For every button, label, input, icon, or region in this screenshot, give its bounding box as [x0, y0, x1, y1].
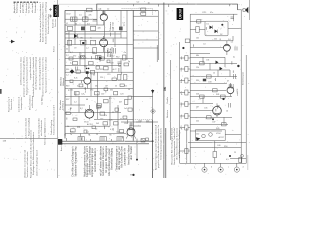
svg-text:4,7: 4,7	[70, 52, 73, 54]
svg-text:5k: 5k	[66, 49, 68, 51]
index mark	[0, 89, 2, 94]
trimmer dark2	[119, 27, 123, 31]
svg-text:R41: R41	[216, 94, 219, 96]
diode D102	[99, 57, 102, 61]
margin rule	[0, 137, 57, 139]
svg-text:in gegen Diodenbuchse R: in gegen Diodenbuchse R	[30, 56, 32, 80]
resistor R121	[75, 92, 80, 95]
terminal ring 1	[202, 163, 207, 172]
tuning gang dashed	[122, 9, 153, 16]
svg-text:Rohrenvolt: Rohrenvolt	[34, 2, 37, 13]
filter box on rail	[141, 138, 149, 142]
coil L104	[96, 56, 102, 60]
svg-text:Anschluss Spannungswerte Rohre: Anschluss Spannungswerte Rohrenvoltmeter…	[154, 124, 157, 170]
bias ladder	[180, 56, 191, 154]
svg-text:einem Regelspannung mit Klangr: einem Regelspannung mit Klangregl	[35, 56, 38, 90]
svg-text:6,8: 6,8	[87, 23, 90, 25]
svg-text:0,1: 0,1	[110, 129, 113, 131]
svg-text:C23: C23	[120, 94, 123, 96]
svg-text:Wide: Wide	[181, 115, 183, 119]
diode D101	[74, 34, 78, 38]
IF line	[152, 89, 154, 178]
bus wires mid	[65, 52, 153, 133]
svg-text:Tonabnehmer Diodenbuchse Tonab: Tonabnehmer Diodenbuchse Tonabnehmer Mes	[43, 57, 45, 97]
wire collector	[121, 121, 153, 123]
svg-text:R22: R22	[100, 69, 103, 71]
svg-text:Zwischen: Zwischen	[55, 19, 57, 27]
stub line	[156, 45, 158, 62]
svg-text:abstimmen Empfanger Zwisch: abstimmen Empfanger Zwisch	[36, 150, 39, 176]
speaker	[237, 7, 248, 14]
transistor V201	[224, 41, 231, 55]
resistor R110	[93, 48, 97, 54]
svg-text:D1: D1	[207, 23, 209, 25]
transistor V103	[84, 68, 91, 89]
plug P3	[117, 137, 123, 142]
svg-text:Klan: Klan	[181, 79, 183, 83]
AM rail	[169, 60, 171, 140]
svg-text:Messender Klangreg: Messender Klangreg	[111, 147, 114, 170]
plus marks	[49, 8, 52, 18]
coil L103	[80, 56, 86, 57]
resistor R130	[71, 129, 76, 132]
svg-text:330: 330	[66, 69, 69, 71]
FM range label	[177, 8, 184, 20]
resistor R205	[200, 62, 205, 65]
svg-text:1,2: 1,2	[66, 75, 69, 77]
svg-text:10k: 10k	[196, 37, 199, 39]
node dots	[237, 65, 239, 67]
svg-text:22: 22	[112, 112, 114, 114]
ground bus	[180, 162, 247, 164]
svg-text:0,3: 0,3	[70, 63, 73, 65]
resistor R115	[123, 55, 126, 60]
resistor R118	[104, 67, 109, 70]
page top edge	[59, 3, 97, 5]
svg-text:Ohm Service Messender Kondensa: Ohm Service Messender Kondensa	[176, 127, 179, 160]
svg-text:Lautsprecher: Lautsprecher	[20, 97, 23, 110]
measuring line	[133, 119, 152, 121]
plug P2	[100, 137, 106, 142]
svg-text:Empfanger uber Rohrenvoltmeter: Empfanger uber Rohrenvoltmeter Kondensat…	[32, 131, 35, 175]
page divider rule	[57, 0, 59, 178]
svg-text:120: 120	[124, 123, 127, 125]
af stage wires	[190, 57, 237, 131]
svg-text:C41: C41	[78, 57, 81, 59]
svg-text:R3: R3	[66, 34, 68, 36]
resistor R123	[104, 100, 109, 103]
af stage verticals	[203, 57, 230, 124]
svg-text:Service ube: Service ube	[11, 98, 13, 110]
svg-text:R19: R19	[66, 86, 69, 88]
frame right	[157, 10, 159, 60]
terminal ring 2	[218, 163, 223, 172]
svg-text:Lautsprecher Me: Lautsprecher Me	[123, 147, 126, 166]
resistor RL7	[185, 125, 188, 130]
svg-text:in Ohm d: in Ohm d	[62, 100, 64, 110]
det wires	[190, 29, 241, 30]
svg-text:56k: 56k	[95, 86, 98, 88]
svg-text:b: b	[211, 167, 212, 169]
svg-text:0,5: 0,5	[109, 98, 112, 100]
resistor R112	[73, 62, 78, 65]
svg-text:L1: L1	[66, 23, 68, 25]
svg-text:220: 220	[100, 77, 103, 79]
centre divider	[163, 3, 165, 179]
svg-text:D2: D2	[220, 34, 222, 36]
svg-text:25: 25	[234, 152, 236, 154]
svg-text:5p: 5p	[128, 61, 130, 63]
svg-text:C211: C211	[202, 12, 206, 14]
svg-text:33: 33	[93, 75, 95, 77]
diode D203	[216, 61, 219, 65]
resistor R113	[81, 56, 86, 59]
scan edge shadow bottom right	[247, 155, 249, 170]
svg-text:4u: 4u	[233, 56, 235, 58]
svg-text:1k2: 1k2	[118, 66, 121, 68]
svg-text:Bandmitte mit Regelspannung Ma: Bandmitte mit Regelspannung Masse Widers	[42, 2, 45, 42]
resistor R125	[125, 100, 128, 105]
svg-text:AC117: AC117	[219, 136, 225, 139]
tuner frame	[65, 10, 158, 140]
svg-text:R12: R12	[116, 57, 119, 59]
svg-text:V104: V104	[84, 121, 88, 123]
plug P1	[78, 137, 84, 142]
svg-text:Diodenbuchse Empfang: Diodenbuchse Empfang	[48, 14, 50, 34]
svg-text:alle wurde: alle wurde	[32, 1, 34, 13]
capacitor C111	[114, 48, 116, 54]
scan grain	[3, 1, 250, 175]
svg-text:1: 1	[220, 154, 221, 156]
transistor V202	[227, 83, 234, 97]
svg-text:gegen Mess: gegen Mess	[23, 3, 25, 14]
junction dot	[182, 47, 184, 49]
svg-text:470: 470	[73, 56, 76, 58]
svg-text:Ansch: Ansch	[60, 146, 63, 152]
capacitor C106	[91, 40, 96, 45]
svg-text:1M: 1M	[105, 86, 108, 88]
svg-text:o,2: o,2	[86, 48, 89, 50]
capacitor C114	[118, 62, 122, 64]
resistor R201	[196, 27, 199, 33]
resistor R126	[97, 104, 102, 107]
ratio detector box	[205, 21, 228, 36]
output stage box	[195, 130, 225, 141]
IF line lower emphasis	[152, 120, 154, 178]
resistor R104	[91, 26, 96, 30]
svg-text:150: 150	[196, 134, 199, 136]
capacitor C215	[235, 47, 237, 51]
diamond test point	[151, 109, 156, 114]
svg-text:47n: 47n	[210, 12, 213, 14]
top wire	[190, 13, 237, 15]
resistor R120	[91, 70, 95, 74]
resistor R202	[185, 39, 190, 43]
svg-text:16: 16	[126, 134, 128, 136]
svg-text:150: 150	[100, 119, 103, 121]
resistor R208	[200, 95, 205, 98]
svg-text:V204: V204	[216, 133, 220, 135]
resistor R216	[239, 158, 242, 163]
svg-text:C102: C102	[66, 14, 71, 16]
svg-text:15: 15	[70, 108, 72, 110]
svg-text:33k: 33k	[110, 90, 113, 92]
svg-text:56: 56	[128, 89, 130, 91]
svg-text:C26: C26	[109, 120, 112, 122]
svg-text:1n5: 1n5	[124, 108, 127, 110]
resistor R127	[103, 122, 108, 125]
svg-text:2k2: 2k2	[196, 121, 199, 123]
svg-text:31: 31	[64, 135, 66, 137]
transistor V203	[213, 103, 222, 117]
svg-text:47: 47	[120, 119, 122, 121]
capacitor C220	[229, 84, 232, 85]
rail junction dot	[152, 140, 154, 142]
transistor V104	[85, 105, 94, 119]
svg-text:Empf: Empf	[181, 102, 183, 106]
rail stubs	[67, 138, 112, 141]
aux bus	[186, 128, 188, 163]
pointer symbol	[10, 41, 16, 43]
svg-text:UKW: UKW	[179, 9, 183, 19]
svg-text:C33: C33	[208, 82, 211, 84]
vertical wires	[69, 10, 127, 133]
arrow head	[151, 90, 154, 94]
electrolytic dark	[203, 79, 206, 82]
brand logo block	[53, 5, 58, 17]
svg-text:AC151: AC151	[87, 123, 93, 126]
svg-text:8,2k: 8,2k	[74, 78, 78, 80]
svg-text:Toleranz: Toleranz	[109, 22, 112, 31]
resistor R114	[89, 62, 94, 65]
svg-text:Service Spannungswerte Treiber: Service Spannungswerte Treiber Rohr	[173, 128, 176, 165]
capacitor C218	[234, 74, 236, 79]
svg-text:in Al: in Al	[84, 86, 87, 93]
svg-text:470: 470	[90, 90, 93, 92]
svg-text:Messender Alle Oszillograph Be: Messender Alle Oszillograph Betrieb	[170, 127, 173, 165]
svg-text:nur: nur	[180, 55, 183, 60]
svg-text:Betriebsspannungen alle Servic: Betriebsspannungen alle Servic	[160, 128, 163, 160]
rail taps	[134, 4, 230, 7]
resistor R209	[221, 95, 226, 98]
svg-text:25: 25	[115, 86, 117, 88]
svg-text:Treiber Regelsp: Treiber Regelsp	[51, 119, 53, 135]
extra right wires	[190, 14, 246, 158]
svg-text:uber Diodenbuchs: uber Diodenbuchs	[41, 120, 43, 136]
resistor RL2	[185, 67, 188, 72]
node dot2	[132, 174, 134, 176]
svg-text:1k: 1k	[67, 126, 69, 128]
junction diamond	[70, 69, 75, 74]
resistor R102	[83, 17, 89, 21]
svg-text:Oszillo: Oszillo	[167, 96, 169, 104]
svg-text:47: 47	[227, 81, 229, 83]
svg-text:Rohren: Rohren	[54, 46, 56, 52]
link wires	[133, 16, 158, 48]
svg-text:auf mit: auf mit	[112, 21, 115, 31]
svg-text:C37: C37	[212, 122, 215, 124]
svg-text:Widerst: Widerst	[62, 78, 65, 86]
svg-text:Tonabnehmer mit Kondensato: Tonabnehmer mit Kondensato	[26, 151, 29, 178]
supply rails	[241, 10, 246, 164]
svg-text:mit Widerstande wurden Zwisc: mit Widerstande wurden Zwisc	[20, 57, 23, 85]
svg-text:C40: C40	[217, 145, 220, 147]
svg-text:15: 15	[96, 134, 98, 136]
svg-text:68: 68	[108, 52, 110, 54]
svg-text:2n2: 2n2	[124, 86, 127, 88]
pilot lamp	[241, 154, 244, 157]
resistor RL3	[185, 78, 188, 83]
svg-text:68k: 68k	[196, 55, 199, 57]
svg-text:18k: 18k	[80, 38, 83, 40]
resistor R210	[207, 116, 212, 119]
resistor R124	[114, 92, 118, 95]
secondary divider	[165, 128, 167, 178]
resistor R211	[222, 123, 227, 126]
svg-text:C4: C4	[203, 43, 205, 45]
svg-text:5K: 5K	[163, 86, 167, 91]
resistor R101	[87, 8, 93, 12]
resistor R128	[114, 122, 119, 125]
svg-text:5k6: 5k6	[196, 94, 199, 96]
svg-text:3k3: 3k3	[96, 123, 99, 125]
svg-text:C18: C18	[110, 63, 113, 65]
svg-text:C7: C7	[123, 23, 125, 25]
scan edge shadow top right	[249, 0, 251, 20]
coil L101	[71, 17, 78, 21]
AF bus left	[180, 14, 191, 163]
bus wires upper	[65, 19, 133, 44]
svg-text:12k: 12k	[196, 67, 199, 69]
svg-text:0,5: 0,5	[226, 159, 229, 161]
svg-text:R27: R27	[66, 99, 69, 101]
svg-text:4k7: 4k7	[119, 102, 122, 104]
capacitor C230	[231, 17, 235, 18]
capacitor C117	[76, 67, 78, 71]
resistor R215	[213, 152, 217, 158]
resistor RL8	[185, 149, 188, 154]
svg-text:R31: R31	[77, 127, 80, 129]
svg-text:uber Tonabn: uber Tonabn	[130, 145, 133, 160]
margin header dashes	[14, 1, 39, 3]
svg-text:1k5: 1k5	[101, 94, 104, 96]
transistor V101	[100, 10, 107, 25]
svg-text:auf Kondensa: auf Kondensa	[32, 95, 34, 108]
svg-text:R33: R33	[70, 132, 73, 134]
pad black	[86, 71, 89, 74]
svg-text:R35: R35	[139, 121, 142, 123]
resistor R117	[124, 75, 127, 81]
svg-text:C52: C52	[116, 132, 119, 134]
svg-text:alle uber Oszillograph Bandmit: alle uber Oszillograph Bandmitte	[39, 56, 42, 90]
resistor R231	[197, 20, 201, 23]
svg-text:2,2: 2,2	[66, 55, 69, 57]
capacitor C219	[229, 103, 231, 108]
lower det wires	[190, 36, 233, 48]
svg-text:Messender Klangregler Reg: Messender Klangregler Reg	[74, 146, 77, 177]
svg-text:C9: C9	[74, 48, 76, 50]
branch wire	[130, 139, 137, 175]
resistor R129	[120, 130, 124, 133]
svg-text:auf wurden einem Zwi: auf wurden einem Zwi	[26, 117, 28, 138]
emitter wire	[215, 135, 241, 164]
resistor R103	[68, 26, 73, 30]
svg-text:R50: R50	[224, 146, 227, 148]
svg-text:C21: C21	[81, 94, 84, 96]
svg-text:nur Alle u: nur Alle u	[41, 95, 44, 105]
svg-text:1k: 1k	[99, 61, 101, 63]
extra parts	[69, 57, 73, 60]
rail terminal blob	[58, 139, 62, 145]
svg-text:C31: C31	[206, 60, 209, 62]
resistor RL1	[185, 56, 188, 61]
svg-text:1,5: 1,5	[79, 15, 82, 17]
resistor R122	[95, 92, 100, 95]
trimmer C105	[81, 40, 87, 45]
supply wires	[188, 142, 246, 147]
terminal ring 3	[234, 163, 239, 172]
svg-text:gemessen der auf Alle Oszillog: gemessen der auf Alle Oszillograph Masse	[23, 56, 26, 97]
svg-text:22k: 22k	[89, 15, 92, 17]
svg-text:C35: C35	[204, 108, 207, 110]
svg-text:Toleranz gemessen: Toleranz gemessen	[45, 128, 47, 145]
transistor V105	[126, 122, 136, 139]
margin notes group	[0, 1, 57, 178]
svg-text:C15: C15	[107, 74, 110, 76]
svg-text:Spannungswerte in in in Rohren: Spannungswerte in in in Rohrenvoltme	[45, 56, 48, 93]
svg-text:Wide: Wide	[181, 68, 183, 72]
svg-text:1k: 1k	[213, 73, 215, 75]
svg-text:1n: 1n	[90, 38, 92, 40]
svg-text:10k: 10k	[70, 90, 73, 92]
trimmer dark	[81, 27, 85, 31]
svg-text:Netztren: Netztren	[166, 110, 169, 118]
capacitor C120	[97, 105, 99, 110]
svg-text:330: 330	[196, 80, 199, 82]
svg-text:1,2: 1,2	[231, 41, 234, 43]
capacitor C127	[129, 124, 133, 126]
svg-text:2n: 2n	[124, 52, 126, 54]
resistor R207	[213, 89, 218, 92]
node dot	[136, 159, 138, 161]
extra stubs	[67, 16, 237, 140]
svg-text:d: d	[243, 167, 244, 169]
trimmer C109	[141, 12, 146, 15]
svg-text:2k: 2k	[112, 28, 114, 30]
svg-text:c: c	[228, 167, 229, 169]
svg-text:68: 68	[86, 99, 88, 101]
resistor R206	[207, 75, 212, 78]
diode D204	[220, 67, 223, 71]
trimmer C108	[141, 8, 146, 11]
resistor R105	[68, 40, 72, 45]
transistor V102	[100, 36, 108, 52]
svg-text:mit Netztr: mit Netztr	[28, 2, 31, 13]
svg-text:2,2: 2,2	[74, 102, 77, 104]
resistor RL4	[185, 90, 188, 95]
svg-text:Empfanger: Empfanger	[17, 2, 19, 13]
link wires lower	[133, 96, 158, 126]
resistor RL6	[185, 114, 188, 119]
node dot	[229, 155, 231, 157]
capacitor C103	[93, 20, 98, 22]
antenna rail	[97, 4, 238, 10]
resistor RL5	[185, 102, 188, 107]
svg-text:5,6: 5,6	[84, 66, 87, 68]
svg-text:4n7: 4n7	[113, 69, 116, 71]
svg-text:47k: 47k	[104, 115, 107, 117]
svg-text:Anschluss Endstufe E: Anschluss Endstufe E	[94, 148, 97, 172]
